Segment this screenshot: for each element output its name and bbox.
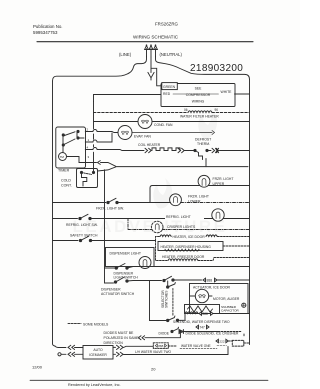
heater dispenser housing box (158, 242, 223, 251)
svg-text:COMPRESSOR: COMPRESSOR (186, 93, 211, 97)
svg-text:GREEN: GREEN (163, 85, 176, 89)
svg-text:888: 888 (203, 312, 209, 316)
defrost drop wire (205, 159, 207, 167)
dispenser feed vertical (104, 170, 106, 268)
defrost thermostat (194, 149, 211, 159)
selector switch upper (167, 283, 176, 289)
capacitor plus symbol (242, 303, 246, 307)
snubber capacitor box (185, 305, 220, 314)
cond fan wire to rail (152, 121, 250, 123)
ground wire (150, 57, 152, 73)
defrost therm label (195, 138, 211, 147)
svg-text:ACTUATOR, ICE DOOR: ACTUATOR, ICE DOOR (193, 286, 231, 290)
diode feed connector line (138, 332, 180, 340)
compressor internal wire (173, 93, 219, 95)
icemaker output top (113, 345, 153, 349)
heater dispenser housing coils (165, 249, 199, 251)
svg-text:5995347753: 5995347753 (33, 30, 58, 35)
heater freezer door rung (156, 241, 250, 261)
neutral wire to right rail (156, 56, 250, 80)
heater dispenser housing wire to rail (223, 245, 250, 247)
svg-text:Rendered by LeadVenture, Inc.: Rendered by LeadVenture, Inc. (68, 383, 121, 387)
cold control contacts (80, 171, 94, 186)
svg-text:FRZR. LIGHT: FRZR. LIGHT (188, 195, 209, 199)
cold control label (61, 179, 72, 188)
actuator ice door box (190, 284, 249, 314)
svg-text:ACTIVATOR SWITCH: ACTIVATOR SWITCH (101, 292, 135, 296)
timer box (56, 127, 86, 168)
svg-text:SEE: SEE (195, 87, 203, 91)
green terminal box (162, 83, 178, 90)
timer terminal labels (87, 128, 90, 160)
svg-text:MOTOR, AUGER: MOTOR, AUGER (213, 297, 240, 301)
svg-text:AUTO: AUTO (93, 348, 103, 352)
svg-text:06: 06 (184, 108, 188, 112)
svg-text:DISPENSER LIGHT: DISPENSER LIGHT (110, 252, 142, 256)
evap fan motor (118, 126, 132, 140)
svg-text:WATER VALVE ONE: WATER VALVE ONE (181, 344, 211, 348)
water dispense feed (150, 281, 167, 321)
selector switch feed (167, 281, 169, 286)
svg-text:ICEMAKER: ICEMAKER (89, 353, 107, 357)
right rail (249, 80, 251, 345)
red wire from compressor (94, 95, 162, 102)
connector arrow on t3 (98, 161, 101, 165)
svg-text:HEATER, DISPENSER HOUSING: HEATER, DISPENSER HOUSING (161, 245, 212, 249)
frzr light lower lamp (170, 194, 182, 206)
svg-text:FRZR. LIGHT SW.: FRZR. LIGHT SW. (96, 207, 124, 211)
icemaker connector bottom (68, 352, 83, 356)
svg-text:Publication No.: Publication No. (33, 24, 63, 29)
svg-text:WHITE: WHITE (221, 90, 233, 94)
water dispense selector switch (167, 314, 186, 322)
svg-text:RED: RED (163, 92, 171, 96)
see compressor wiring text (186, 87, 211, 104)
refrig light wire to rail (223, 218, 249, 220)
connector 747 (196, 325, 209, 329)
svg-text:TM: TM (60, 155, 65, 159)
svg-text:EVAP. FAN: EVAP. FAN (134, 135, 151, 139)
frzr lower wire right (181, 202, 250, 204)
water dispense solenoid coil (185, 312, 198, 314)
svg-text:CONT.: CONT. (61, 184, 72, 188)
defrost connector right (212, 148, 250, 152)
svg-text:THERM.: THERM. (197, 142, 210, 146)
svg-text:HEATER, FREEZER DOOR: HEATER, FREEZER DOOR (162, 255, 205, 259)
cond fan motor (138, 115, 152, 129)
dispenser light box (106, 248, 155, 267)
dispenser light lamp (139, 257, 151, 269)
compressor box (161, 84, 235, 107)
left rail (53, 81, 56, 346)
title rule (37, 41, 253, 43)
svg-text:UPPER: UPPER (213, 182, 225, 186)
dash diode row to cluster (218, 332, 244, 338)
water filter heater rung (94, 112, 189, 114)
dispenser activator switch (114, 277, 161, 283)
svg-text:FRS26ZRG: FRS26ZRG (155, 22, 179, 27)
publication number (33, 24, 63, 35)
svg-text:888: 888 (158, 344, 163, 348)
frzr upper wire to rail (209, 185, 250, 187)
svg-text:WATER FILTER HEATER: WATER FILTER HEATER (180, 114, 219, 118)
svg-text:COND. FAN: COND. FAN (154, 123, 173, 127)
line wire to left rail (53, 56, 147, 81)
icemaker output bottom (113, 347, 228, 357)
icemaker connector top (68, 345, 83, 349)
evap fan rung from timer (85, 130, 118, 133)
frzr light switch (107, 198, 171, 203)
refrig light lamp (212, 209, 224, 221)
diode symbol (179, 330, 218, 334)
auger motor (195, 289, 208, 302)
svg-text:CAPACITOR: CAPACITOR (221, 309, 240, 313)
compressor run wire (117, 166, 249, 168)
refrig light label (165, 214, 204, 220)
connector 888 water dispense (199, 312, 250, 316)
auto icemaker box (83, 346, 113, 360)
svg-text:DIODE: DIODE (159, 331, 170, 335)
svg-text:DIRECTION: DIRECTION (104, 341, 124, 345)
svg-text:12/00: 12/00 (32, 365, 43, 370)
dispenser light switch label (114, 272, 139, 280)
icemaker feed from rail (55, 346, 66, 347)
crisper rung left (128, 229, 152, 231)
svg-text:4: 4 (87, 146, 89, 150)
coil heater connector right (178, 148, 194, 152)
timer t3 wire with connector (86, 163, 116, 167)
frzr light upper lamp (198, 175, 210, 187)
svg-text:POLARIZED IN SAME: POLARIZED IN SAME (104, 336, 140, 340)
svg-text:COIL HEATER: COIL HEATER (138, 143, 161, 147)
timer contacts (62, 130, 84, 152)
svg-text:LOWER: LOWER (188, 200, 201, 204)
refrig light switch (79, 214, 213, 219)
svg-text:20: 20 (151, 367, 156, 372)
cold control output wire (98, 167, 117, 171)
diode junction dot (180, 331, 182, 333)
red vertical to cold control (93, 102, 95, 173)
crisper rung right (162, 229, 249, 231)
cold control box (77, 169, 98, 188)
svg-text:3: 3 (88, 155, 90, 159)
green wire to compressor box (151, 68, 161, 86)
water valve one label (180, 344, 227, 348)
coil heater element (152, 148, 180, 151)
svg-text:2: 2 (87, 128, 89, 132)
heater ice door rung (156, 235, 250, 241)
svg-text:REFRIG. LIGHT: REFRIG. LIGHT (166, 215, 191, 219)
selector dashed vertical (172, 289, 174, 317)
dispenser light switch (105, 264, 250, 270)
svg-text:DIODES MUST BE: DIODES MUST BE (104, 331, 135, 335)
connector 222 (216, 339, 228, 343)
safety switch rung (53, 240, 79, 242)
evap fan wire right (132, 131, 215, 135)
connector 888 upper (203, 278, 250, 282)
dispenser activator rung (105, 268, 114, 283)
red wire to cond fan rung (94, 121, 139, 123)
frzr light lower label (188, 195, 209, 204)
svg-text:TIMER: TIMER (58, 169, 70, 173)
coil heater connector left (145, 148, 151, 152)
white wire to right rail (235, 93, 250, 95)
svg-text:888: 888 (207, 279, 213, 283)
supply arrows (145, 44, 158, 57)
timer t1 wire (85, 133, 112, 142)
svg-text:WIRING SCHEMATIC: WIRING SCHEMATIC (133, 35, 179, 40)
ground symbol (148, 72, 154, 80)
water valve one wire (168, 345, 176, 347)
footer rule (30, 379, 268, 381)
svg-text:(NEUTRAL): (NEUTRAL) (160, 52, 183, 57)
svg-text:SAFETY SWITCH: SAFETY SWITCH (70, 234, 98, 238)
crisper branch (127, 219, 129, 230)
svg-text:FRZR. LIGHT: FRZR. LIGHT (213, 177, 234, 181)
svg-text:L/H WATER VALVE TWO: L/H WATER VALVE TWO (135, 350, 171, 354)
some models note (68, 322, 139, 345)
dispenser activator label (101, 288, 135, 296)
watermark text (72, 108, 227, 236)
svg-text:DIODE SOLENOID, ICE CRUSHER: DIODE SOLENOID, ICE CRUSHER (186, 331, 240, 335)
diode row switch (171, 327, 179, 332)
svg-text:SOME MODELS: SOME MODELS (83, 322, 109, 326)
svg-text:HEATER, ICE DOOR: HEATER, ICE DOOR (173, 235, 206, 239)
svg-text:CRISPER LIGHTS: CRISPER LIGHTS (167, 225, 196, 229)
svg-text:1: 1 (88, 138, 90, 142)
svg-text:218903200: 218903200 (190, 63, 243, 74)
snubber capacitor label (221, 305, 240, 313)
frzr upper branch (150, 186, 199, 203)
refrig light sw rung (53, 218, 78, 220)
safety switch (79, 236, 155, 241)
actuator feed switch (163, 276, 202, 281)
svg-text:LIGHT SWITCH: LIGHT SWITCH (114, 276, 139, 280)
svg-text:REFRIG. LIGHT SW.: REFRIG. LIGHT SW. (66, 223, 98, 227)
frzr light sw rung (53, 202, 106, 204)
svg-text:WIRING: WIRING (192, 99, 205, 103)
timer motor TM (59, 153, 67, 161)
svg-text:222: 222 (219, 340, 224, 344)
coil heater rung (85, 148, 144, 151)
svg-text:747: 747 (200, 326, 206, 330)
svg-text:COLD: COLD (61, 179, 71, 183)
svg-text:90: 90 (215, 108, 219, 112)
svg-text:DEFROST: DEFROST (195, 138, 211, 142)
svg-text:SOLENOID, WATER DISPENSE TWO: SOLENOID, WATER DISPENSE TWO (173, 320, 230, 324)
svg-text:SWITCHES: SWITCHES (165, 290, 169, 308)
svg-text:(LINE): (LINE) (119, 52, 132, 57)
crisper lamp (151, 221, 163, 233)
icemaker lower terminal (58, 353, 66, 356)
water valve one 888 dashed box (153, 343, 168, 349)
frzr light upper label (213, 177, 234, 186)
timer motor wire (67, 157, 86, 163)
ice crusher dashed box (229, 340, 250, 346)
